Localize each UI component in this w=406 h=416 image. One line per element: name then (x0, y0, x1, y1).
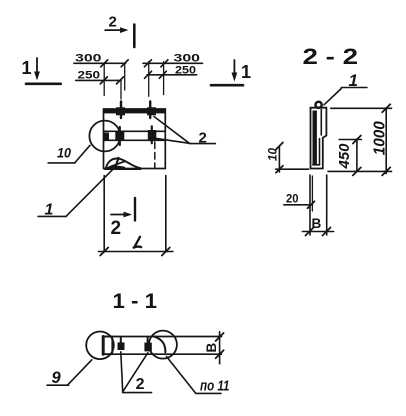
extension line left c (124, 63, 126, 90)
section 1-1 band top line (103, 336, 222, 338)
plan middle anchor stroke right (151, 126, 153, 143)
dim 450: top extension (339, 139, 361, 141)
section 2-2 element outer profile (311, 108, 327, 169)
svg-text:10: 10 (57, 144, 71, 160)
section marker 2 bottom: arrowhead (124, 212, 133, 218)
svg-text:В: В (204, 343, 219, 353)
section 2-2 leader 1: underline (341, 87, 367, 89)
plan anchor tick left (120, 102, 122, 119)
svg-text:1: 1 (22, 58, 32, 78)
section 2-2 inner bottom (313, 164, 320, 166)
plan top flange bar (104, 109, 166, 114)
dim B 1-1: tick bottom (216, 350, 224, 358)
section 2-2 lifting ring (316, 102, 322, 108)
leader 2 plan: branch from top anchor (154, 117, 189, 144)
dimension 250 right: tick (159, 71, 166, 78)
dim B 2-2: line (302, 231, 333, 233)
section 1-1 plate thick edge (102, 337, 105, 355)
section 1-1 anchor stub right (147, 337, 149, 344)
dimension 250 right: line (147, 74, 197, 76)
section marker 2 top: arrowhead (120, 27, 129, 33)
dim 20: line (284, 204, 312, 206)
plan middle plate line bottom (104, 139, 166, 141)
dimension 250 left: tick (100, 77, 107, 84)
section 2-2 embedded bar (313, 111, 317, 166)
plan lower extension right (165, 176, 167, 253)
plan bottom dim label ell (134, 237, 142, 248)
extension line right a (148, 62, 150, 97)
plan bottom dim tick left (100, 248, 108, 256)
plan middle anchor blob right (148, 130, 157, 141)
section marker 1 right: cut bar (211, 84, 243, 87)
section 2-2 inner line upper (320, 110, 322, 136)
svg-text:2: 2 (111, 218, 122, 239)
section marker 1 left: cut bar (26, 83, 61, 86)
dimension 300 right: tick (144, 60, 151, 67)
svg-text:2: 2 (109, 13, 117, 30)
section 1-1 band bottom line (103, 353, 222, 355)
section 1-1 plate rect (103, 337, 112, 355)
plan centreline dashed (154, 142, 156, 169)
leader 1 plan: diagonal (66, 169, 113, 216)
leader 2 bottom: branch right (123, 353, 148, 392)
leader po 11: diagonal (167, 357, 196, 394)
plan outline rectangle (104, 109, 166, 169)
section 1-1 anchor stub left (120, 337, 122, 344)
section marker 1 right: arrowhead (232, 73, 238, 82)
detail circle 10 (89, 121, 120, 152)
dim B 2-2: tick right (323, 228, 331, 236)
leader 10: diagonal (75, 145, 90, 163)
dim B 1-1: tick top (216, 333, 224, 341)
plan anchor blob left top (116, 107, 125, 115)
leader po 11: underline (196, 392, 222, 394)
dimension 300 left: line (74, 62, 126, 64)
section 1-1 anchor square right (144, 343, 151, 352)
dimension 300 left: tick (121, 60, 128, 67)
dim 1000: tick bottom (382, 167, 390, 175)
section 2-2 lower extension right (326, 175, 328, 235)
plan middle anchor blob left (115, 131, 124, 141)
dimension 250 right: tick (145, 71, 152, 78)
section marker 2 top: cut bar (133, 25, 136, 47)
section 2-2 lower extension left (309, 175, 311, 235)
section marker 1 right: arrow line (233, 60, 235, 75)
section 1-1 left circle (86, 332, 114, 360)
dim 10 left: bottom extension (276, 168, 309, 170)
extension line left b (120, 80, 122, 99)
svg-text:1: 1 (241, 62, 251, 82)
svg-text:2 - 2: 2 - 2 (303, 44, 359, 69)
dim 1000: bottom extension (328, 170, 392, 172)
dim B 1-1: line (219, 332, 221, 364)
plan middle plate line top (104, 130, 166, 132)
dim 450: tick top (353, 136, 361, 144)
mound cross stroke steep (115, 158, 119, 169)
svg-text:2: 2 (199, 130, 207, 147)
dim 1000: tick top (382, 104, 390, 112)
section 1-1 anchor square left (118, 342, 125, 350)
section 1-1 cut curve (154, 337, 165, 353)
section marker 2 bottom: arrow line (111, 214, 126, 216)
dim 450: tick bottom (353, 167, 361, 175)
svg-text:В: В (312, 216, 322, 231)
dim 1000: top extension (331, 107, 392, 109)
leader 9: diagonal (68, 360, 92, 385)
svg-text:1000: 1000 (372, 121, 389, 155)
plan lower extension left (103, 176, 105, 253)
section marker 2 top: arrow line (105, 29, 124, 31)
plan middle left edge blob (104, 133, 110, 141)
leader 1 plan: tail (38, 215, 66, 217)
dim 10 left: tick bottom (276, 166, 283, 173)
section 2-2 leader 1: diagonal (324, 89, 341, 105)
plan middle anchor stroke left (119, 127, 121, 145)
dim 10 left: line (278, 146, 280, 172)
dimension 250 left: tick (117, 77, 124, 84)
dim 10 left: tick top (276, 143, 283, 150)
dim B 2-2: tick left (306, 228, 314, 236)
leader 2 plan: tail (189, 143, 215, 145)
plan anchor blob right top (147, 107, 156, 115)
section 2-2 inner line lower (319, 139, 321, 165)
plan bottom dim tick right (162, 248, 170, 256)
dim 20: tick (308, 201, 315, 208)
leader 10: tail (48, 162, 75, 164)
svg-text:2: 2 (136, 376, 145, 393)
leader 2 bottom: branch left (121, 352, 123, 392)
extension line right b (163, 62, 165, 95)
mound base fill (105, 166, 127, 169)
svg-text:9: 9 (52, 369, 62, 387)
leader 2 plan: branch from middle anchor (155, 138, 190, 143)
mound weld detail outline (106, 158, 141, 168)
section marker 1 left: arrow line (36, 58, 38, 74)
svg-text:10: 10 (268, 147, 280, 161)
svg-text:20: 20 (286, 194, 299, 206)
svg-text:по 11: по 11 (200, 377, 230, 394)
dimension 300 right: tick (161, 60, 168, 67)
dimension 300 right: line (143, 62, 203, 64)
svg-text:450: 450 (336, 143, 353, 170)
leader 9: tail (47, 384, 69, 386)
leader 2 bottom: underline (123, 392, 152, 394)
dim 450: line (356, 139, 358, 171)
dimension 300 left: tick (101, 60, 108, 67)
section marker 1 left: arrowhead (34, 72, 40, 81)
svg-text:1 - 1: 1 - 1 (113, 290, 158, 313)
extension line left a (103, 63, 105, 95)
plan bottom dimension line (98, 251, 172, 253)
dimension 250 left: line (76, 79, 121, 81)
plan anchor tick right (149, 102, 151, 119)
section 2-2 lower extension left inner (311, 176, 313, 211)
dim 1000: line (385, 108, 387, 174)
section marker 2 bottom: cut bar (134, 198, 136, 221)
svg-text:1: 1 (45, 202, 54, 219)
mound base line (105, 168, 141, 170)
section 1-1 right circle (149, 331, 177, 359)
mound cross stroke diagonal (110, 161, 125, 167)
